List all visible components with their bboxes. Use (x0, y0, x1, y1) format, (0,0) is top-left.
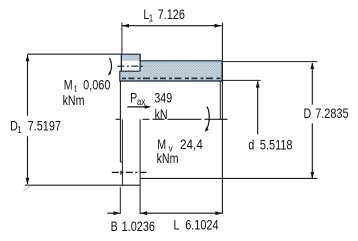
svg-text:7.126: 7.126 (158, 7, 185, 23)
svg-text:5.5118: 5.5118 (260, 137, 293, 153)
body left edge inner (121, 119, 123, 185)
strip bottom edge + D1 extension line (25, 184, 140, 186)
svg-text:1: 1 (17, 124, 21, 135)
dimension D (304, 62, 349, 179)
d extension tick (222, 79, 260, 81)
dimension d (248, 81, 292, 153)
body right edge + L1/L extensions (221, 23, 223, 214)
dimension D1 (10, 54, 61, 191)
D1 top extension line (28, 53, 122, 55)
svg-text:M: M (64, 77, 73, 93)
svg-text:kNm: kNm (63, 93, 85, 109)
svg-text:1.0236: 1.0236 (122, 219, 155, 235)
thread dashes in piston (122, 77, 221, 79)
svg-text:0,060: 0,060 (83, 77, 110, 93)
svg-text:L: L (174, 217, 180, 233)
svg-text:1: 1 (149, 13, 153, 24)
svg-text:kNm: kNm (157, 151, 179, 167)
bore line (dashed) (143, 118, 231, 120)
body bottom edge + D extension line (140, 177, 317, 179)
svg-text:B: B (111, 219, 118, 235)
D top extension line (222, 61, 317, 63)
torque Mt with arc arrow (63, 58, 112, 108)
left notch tick (120, 171, 122, 175)
svg-text:P: P (130, 90, 137, 106)
dimension L1 (122, 7, 221, 28)
svg-text:7.2835: 7.2835 (315, 106, 348, 122)
svg-text:7.5197: 7.5197 (28, 118, 61, 134)
dimension B (107, 211, 155, 234)
lower connection centerline (112, 171, 147, 173)
load Pax (127, 90, 172, 122)
torque Mv with arc arrow (157, 107, 210, 167)
nipple centerline (117, 65, 145, 67)
B left extension line (119, 187, 121, 214)
oil nipple square interior (121, 54, 140, 71)
body left step (120, 161, 122, 163)
dimension L (140, 211, 222, 233)
svg-text:349: 349 (154, 90, 172, 106)
svg-text:d: d (248, 137, 254, 153)
bore line left tick (116, 118, 121, 120)
L1 left extension line (121, 23, 123, 55)
body left edge outer (119, 81, 121, 162)
svg-text:6.1024: 6.1024 (185, 217, 218, 233)
inner vertical (strip right edge) + B/L extension (139, 119, 141, 214)
svg-text:kN: kN (155, 106, 168, 122)
inner chamfer line right (219, 81, 221, 119)
svg-text:D: D (304, 106, 312, 122)
piston (blue section) (120, 54, 222, 81)
svg-text:24,4: 24,4 (180, 136, 203, 152)
svg-text:ax: ax (137, 96, 146, 107)
